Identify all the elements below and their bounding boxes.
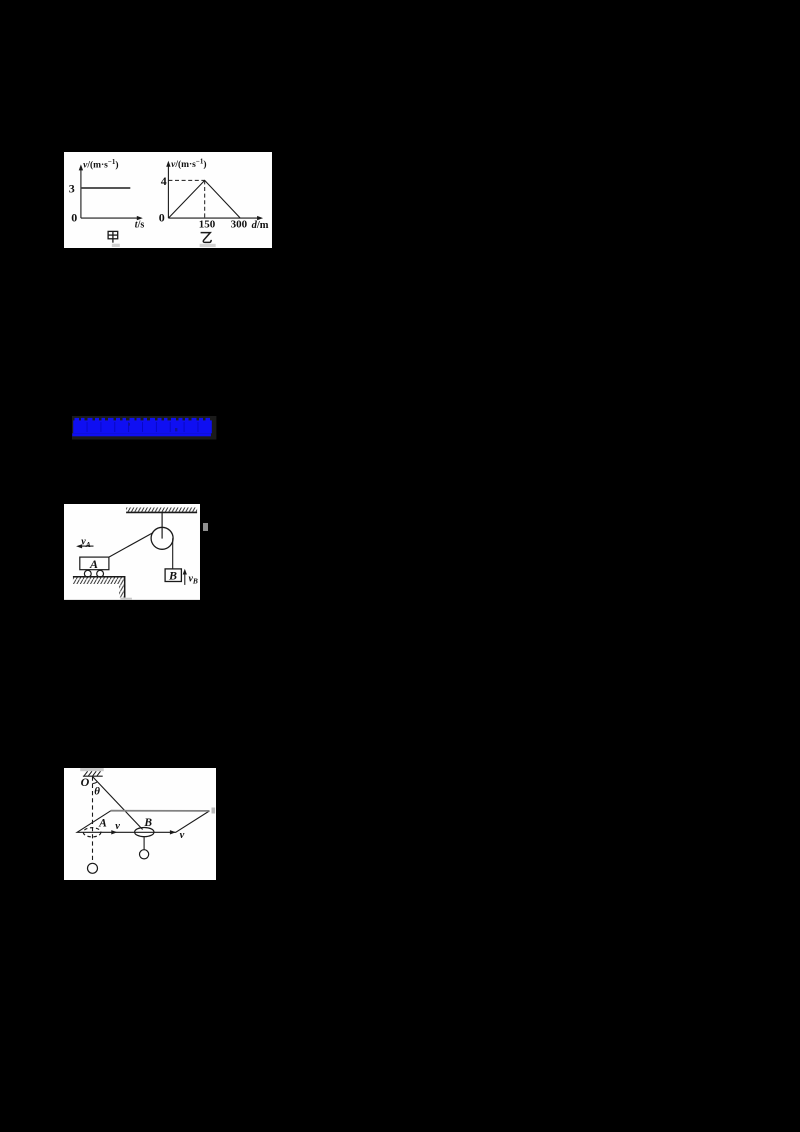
ceiling line: [126, 511, 197, 513]
ground hatching vertical: [119, 584, 125, 598]
svg-text:B: B: [143, 817, 152, 829]
graph yi x-axis: [168, 217, 259, 219]
pivot baseline: [83, 775, 103, 777]
figure panel 3: pendulum over moving table with holes A and B: [64, 768, 216, 880]
cart A body: [80, 557, 109, 570]
velocity arrow after A: [111, 830, 117, 834]
hyperlink glyph band: [73, 418, 212, 433]
caption smudge: [199, 244, 215, 247]
table parallelogram sides: [77, 811, 209, 833]
hyperlink underline: [72, 433, 211, 436]
graph jia y-axis: [80, 168, 82, 217]
ball below B: [139, 850, 148, 859]
svg-text:d/m: d/m: [251, 220, 268, 231]
svg-text:3: 3: [69, 181, 75, 195]
top gray smudge: [80, 768, 103, 772]
hyperlink (blue underlined CJK text): [72, 416, 217, 440]
svg-text:θ: θ: [94, 785, 100, 797]
pulley: [151, 527, 173, 549]
svg-text:150: 150: [198, 218, 215, 230]
block B: [165, 569, 181, 582]
graph jia horizontal line v=3: [81, 187, 130, 189]
velocity arrowhead right end: [170, 830, 176, 834]
caption smudge: [111, 243, 119, 246]
graph yi dashed vertical at 150: [203, 180, 205, 218]
right edge gray patch: [211, 808, 215, 814]
hole B ellipse: [134, 827, 153, 836]
cart wheel 1: [84, 570, 91, 577]
svg-text:A: A: [98, 817, 107, 829]
svg-text:t/s: t/s: [134, 219, 144, 230]
hole A dashed ellipse: [83, 828, 101, 837]
pendulum string O to B: [92, 776, 142, 829]
svg-text:300: 300: [230, 218, 247, 230]
graph yi dashed level 4: [168, 179, 204, 181]
graph jia caption 甲 (drawn): [108, 231, 118, 242]
figure panel 2: pulley with cart A and block B: [64, 504, 200, 600]
hyperlink backdrop: [72, 416, 216, 440]
angle arc: [92, 782, 97, 784]
svg-text:v: v: [179, 830, 184, 841]
ceiling hatching: [126, 507, 197, 512]
graph jia x-axis: [81, 217, 139, 219]
svg-text:A: A: [89, 557, 98, 571]
ground line: [73, 577, 125, 598]
dashed vertical reference line: [91, 777, 93, 862]
svg-text:v: v: [115, 821, 120, 832]
gray artifact right of panel 2: [203, 523, 208, 531]
ground hatching horizontal: [73, 577, 125, 583]
table top edge (gray): [111, 810, 210, 812]
figure panel 1: velocity-time and velocity-distance graphs: [64, 152, 272, 248]
string below B: [143, 836, 145, 850]
rope from pulley to block B: [172, 538, 174, 569]
graph yi triangle curve: [168, 180, 240, 218]
svg-text:0: 0: [71, 210, 77, 224]
svg-text:B: B: [168, 568, 177, 582]
glyph counters: [175, 428, 177, 431]
graph yi caption 乙 (drawn): [200, 232, 211, 242]
rope from pulley to cart A: [109, 532, 153, 556]
graph yi y-axis: [167, 164, 169, 217]
svg-text:O: O: [80, 775, 89, 789]
bottom smudge: [120, 598, 131, 601]
velocity arrow vA: [80, 545, 94, 547]
svg-text:0: 0: [158, 210, 164, 224]
svg-text:4: 4: [160, 174, 166, 188]
ball below A: [87, 863, 97, 873]
pivot hatching: [84, 771, 100, 775]
cart wheel 2: [97, 570, 104, 577]
velocity arrow vB: [184, 572, 186, 585]
pulley support rod: [161, 512, 163, 538]
